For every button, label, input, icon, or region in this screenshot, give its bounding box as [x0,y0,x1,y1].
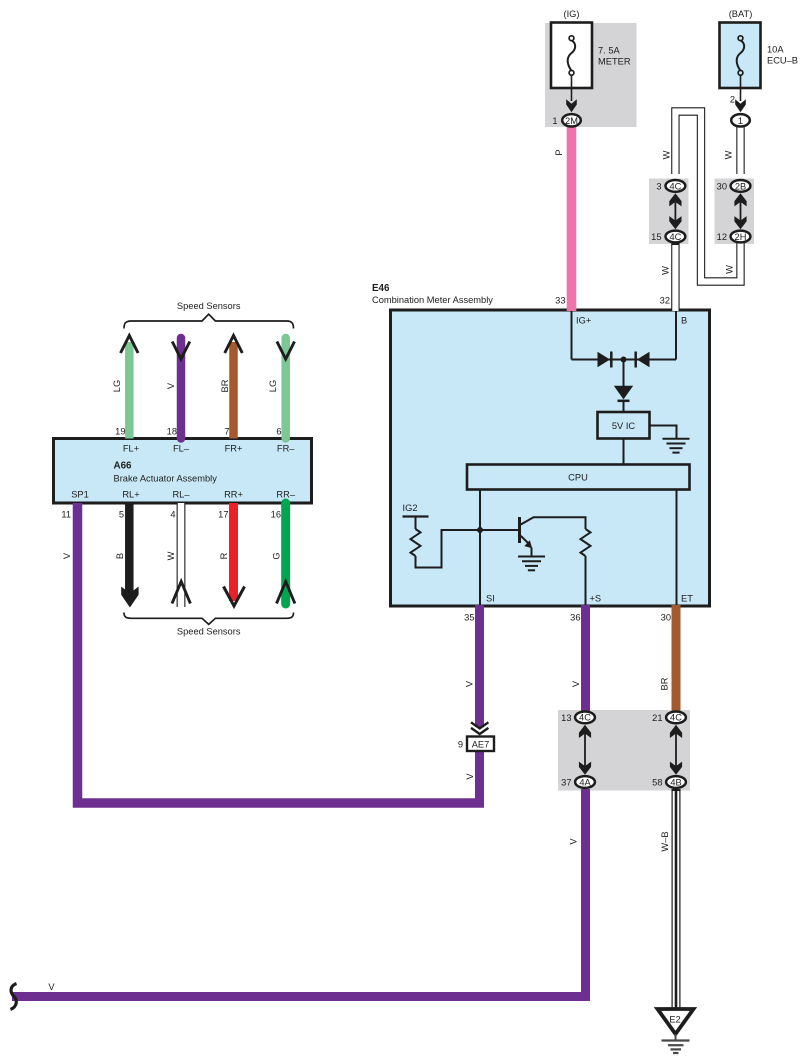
svg-text:11: 11 [61,510,71,520]
svg-text:36: 36 [570,613,580,623]
svg-text:2: 2 [730,95,735,105]
svg-text:SP1: SP1 [71,490,89,500]
svg-text:W: W [166,551,176,560]
svg-text:58: 58 [652,778,662,788]
double arrow between 21 4C and 58 4B [670,725,682,775]
wire V from E46 SI (pin 35) down to AE7 [475,605,484,727]
svg-text:BR: BR [220,379,230,392]
svg-text:30: 30 [717,182,727,192]
svg-text:17: 17 [218,510,228,520]
svg-text:FR–: FR– [277,444,295,454]
lead from IG fuse to connector 2M [571,75,573,101]
svg-text:9: 9 [458,740,463,750]
svg-text:5V IC: 5V IC [612,421,636,431]
svg-text:1: 1 [738,116,743,126]
lead from 5V IC to ground [650,426,677,439]
wire G speed sensor RR- (pin 16) [281,503,290,604]
internal horizontal bus to diodes [572,359,677,361]
wire W from BAT fuse oval 1 down to 2B [736,125,744,174]
svg-text:BR: BR [659,677,669,690]
wire W-B from 58 4B down to E2 [672,789,681,1008]
connector oval 3 4C [666,180,686,192]
svg-text:(BAT): (BAT) [729,9,753,19]
lead IG2 bar to resistor [415,517,417,530]
svg-text:4A: 4A [579,777,591,787]
arrow down on FL- wire [172,342,190,360]
A66 brake actuator assembly box [54,439,312,504]
svg-text:13: 13 [561,713,571,723]
wire break squiggle at left end of V wire [11,984,17,1010]
svg-text:B: B [115,553,125,559]
5V IC block [598,412,650,439]
brace over speed sensor wires [124,314,294,328]
svg-text:SI: SI [486,594,495,604]
svg-text:10A: 10A [767,45,784,55]
diode D1 (anode left) [598,352,612,368]
svg-text:B: B [681,316,687,326]
junction node between diodes [621,357,627,363]
svg-text:33: 33 [555,296,565,306]
connector oval 21 4C [666,712,686,724]
svg-text:15: 15 [651,232,661,242]
IG2 supply bar [403,515,429,517]
ground inside E46 (5V IC) [663,439,690,453]
svg-text:4C: 4C [669,232,681,242]
lead from R1 to base line [416,530,519,568]
svg-text:4C: 4C [669,181,681,191]
connector oval 13 4C [575,712,595,724]
arrow up on RL- wire [172,582,190,604]
svg-text:ET: ET [681,594,693,604]
svg-text:METER: METER [598,57,631,67]
svg-text:(IG): (IG) [563,9,579,19]
wire W from 15 4C down to E46 pin 32 [671,243,679,311]
svg-text:A66: A66 [114,461,133,472]
svg-text:V: V [62,552,72,559]
wire P (pink) from 2M to E46 pin 33 [567,127,577,311]
svg-text:Combination Meter Assembly: Combination Meter Assembly [372,295,493,305]
svg-text:32: 32 [660,296,670,306]
svg-text:V: V [166,382,176,389]
double arrow between 3 4C and 15 4C [669,193,681,229]
svg-text:7: 7 [224,427,229,437]
wire W speed sensor RL- (pin 4) [177,503,186,608]
svg-text:FL+: FL+ [123,444,139,454]
wire LG speed sensor FR- (pin 6) [281,338,290,439]
svg-text:19: 19 [115,427,125,437]
svg-text:W: W [662,150,672,159]
svg-text:4B: 4B [670,777,681,787]
wire LG speed sensor FL+ (pin 19) [125,342,134,439]
wire W loop from 2H down, left, up and into 3 4C [675,112,740,282]
connector oval 15 4C [666,231,686,243]
svg-text:CPU: CPU [568,473,588,483]
arrow into oval 1 [735,99,746,112]
wire V from 37 4A down and left along bottom [12,789,586,997]
svg-text:Brake Actuator Assembly: Brake Actuator Assembly [114,474,218,484]
wire B speed sensor RL+ (pin 5) [125,503,134,594]
wire R speed sensor RR+ (pin 17) [229,503,238,601]
ground inside E46 (emitter) [518,557,545,571]
svg-text:FL–: FL– [173,444,190,454]
svg-text:P: P [554,149,564,155]
connector oval 2M pin 1 [562,114,581,126]
svg-text:LG: LG [268,380,278,392]
svg-text:G: G [271,552,281,559]
diode D3 (cathode down) [614,386,633,401]
svg-text:2M: 2M [565,116,578,126]
svg-text:2H: 2H [735,232,747,242]
junction block shading panel behind IG fuse [545,23,637,127]
lead from D3 to 5V IC [623,401,625,412]
internal SI lead from CPU down [479,490,481,606]
lead from R2 to +S [585,556,587,605]
internal ET lead from CPU down [676,490,678,606]
svg-text:FR+: FR+ [225,444,243,454]
svg-text:W: W [724,150,734,159]
svg-text:R: R [219,552,229,559]
fuse 10A ECU-B (BAT) [720,23,761,89]
wire V from A66 SP1 (pin 11) down, right to SI column [78,503,485,803]
ground E2 triangle [658,1009,694,1034]
svg-text:35: 35 [464,613,474,623]
wire V speed sensor FL- (pin 18) [177,338,186,439]
svg-text:IG+: IG+ [576,316,591,326]
svg-text:LG: LG [112,380,122,392]
svg-text:RR+: RR+ [224,490,243,500]
svg-text:7. 5A: 7. 5A [598,46,621,56]
fuse 7.5A METER (IG) [551,23,592,89]
svg-text:IG2: IG2 [403,503,418,513]
ground hatch E2 [662,1041,690,1054]
diode D2 (anode right) [636,352,650,368]
svg-text:E46: E46 [372,283,390,294]
svg-text:37: 37 [561,778,571,788]
resistor R1 [411,529,421,556]
svg-text:W: W [725,265,735,274]
CPU block [467,465,690,490]
double arrow between 2B and 2H [734,193,746,229]
resistor R2 [581,529,591,556]
arrow down on FR- wire [277,342,295,360]
connector oval 30 2B [731,180,751,192]
svg-text:Speed Sensors: Speed Sensors [177,627,241,637]
svg-text:V: V [568,838,578,845]
connector shading panel 4C (row 1 left) [649,179,689,245]
wire BR speed sensor FR+ (pin 7) [229,342,238,439]
internal lead IG+ down [571,311,573,360]
E46 combination meter assembly box [391,310,710,606]
svg-text:3: 3 [656,182,661,192]
brace under speed sensor wires [124,613,294,625]
svg-text:18: 18 [167,427,177,437]
svg-text:Speed Sensors: Speed Sensors [177,301,241,311]
arrow up on FR+ wire [225,336,243,354]
svg-text:V: V [465,773,475,780]
transistor Q1 [520,517,586,557]
arrow down solid on RL+ wire [121,587,138,608]
svg-text:W–B: W–B [660,831,670,851]
connector AE7 [467,737,494,752]
lead from 5V IC to CPU [623,439,625,465]
svg-text:V: V [464,680,474,687]
svg-text:4C: 4C [579,713,591,723]
svg-text:21: 21 [652,713,662,723]
svg-text:4C: 4C [670,713,682,723]
svg-text:ECU–B: ECU–B [767,56,798,66]
wire BR from E46 ET (pin 30) down to 21 4C [672,605,681,711]
svg-text:V: V [571,680,581,687]
svg-text:W: W [661,266,671,275]
lead from E2 to ground hatch [675,1034,677,1041]
connector shading panel 2B/2H (row 1 right) [715,179,755,245]
lead from junction down to D3 [623,360,625,387]
arrow down on RR+ wire [224,587,245,607]
arrow up on RR- wire [277,582,295,604]
svg-text:V: V [48,982,55,992]
svg-text:RR–: RR– [276,490,295,500]
svg-text:RL+: RL+ [122,490,139,500]
junction node on SI line [477,527,483,533]
double arrow between 13 4C and 37 4A [579,725,591,775]
svg-text:6: 6 [276,427,281,437]
connector oval 37 4A [575,776,595,788]
svg-text:E2: E2 [669,1015,680,1025]
svg-text:AE7: AE7 [472,740,490,750]
connector oval 58 4B [666,776,686,788]
arrow into 2M [566,99,577,112]
arrow up on FL+ wire [121,336,139,354]
svg-text:RL–: RL– [172,490,190,500]
double chevron into AE7 [471,722,488,734]
svg-text:1: 1 [552,116,557,126]
svg-text:2B: 2B [735,181,746,191]
svg-text:12: 12 [717,232,727,242]
connector oval 12 2H [731,231,751,243]
connector shading panel 4C/4A-4B (row 2) [558,710,690,791]
wire V from AE7 down to horizontal run [475,751,484,803]
svg-text:16: 16 [271,510,281,520]
lead from BAT fuse to oval 1 [740,75,742,101]
svg-text:+S: +S [590,594,602,604]
connector oval 1 [731,114,750,126]
svg-text:5: 5 [119,510,124,520]
svg-text:30: 30 [661,613,671,623]
svg-text:4: 4 [170,510,175,520]
wire V from E46 +S (pin 36) down to 13 4C [581,605,590,711]
internal lead B down [675,311,677,360]
